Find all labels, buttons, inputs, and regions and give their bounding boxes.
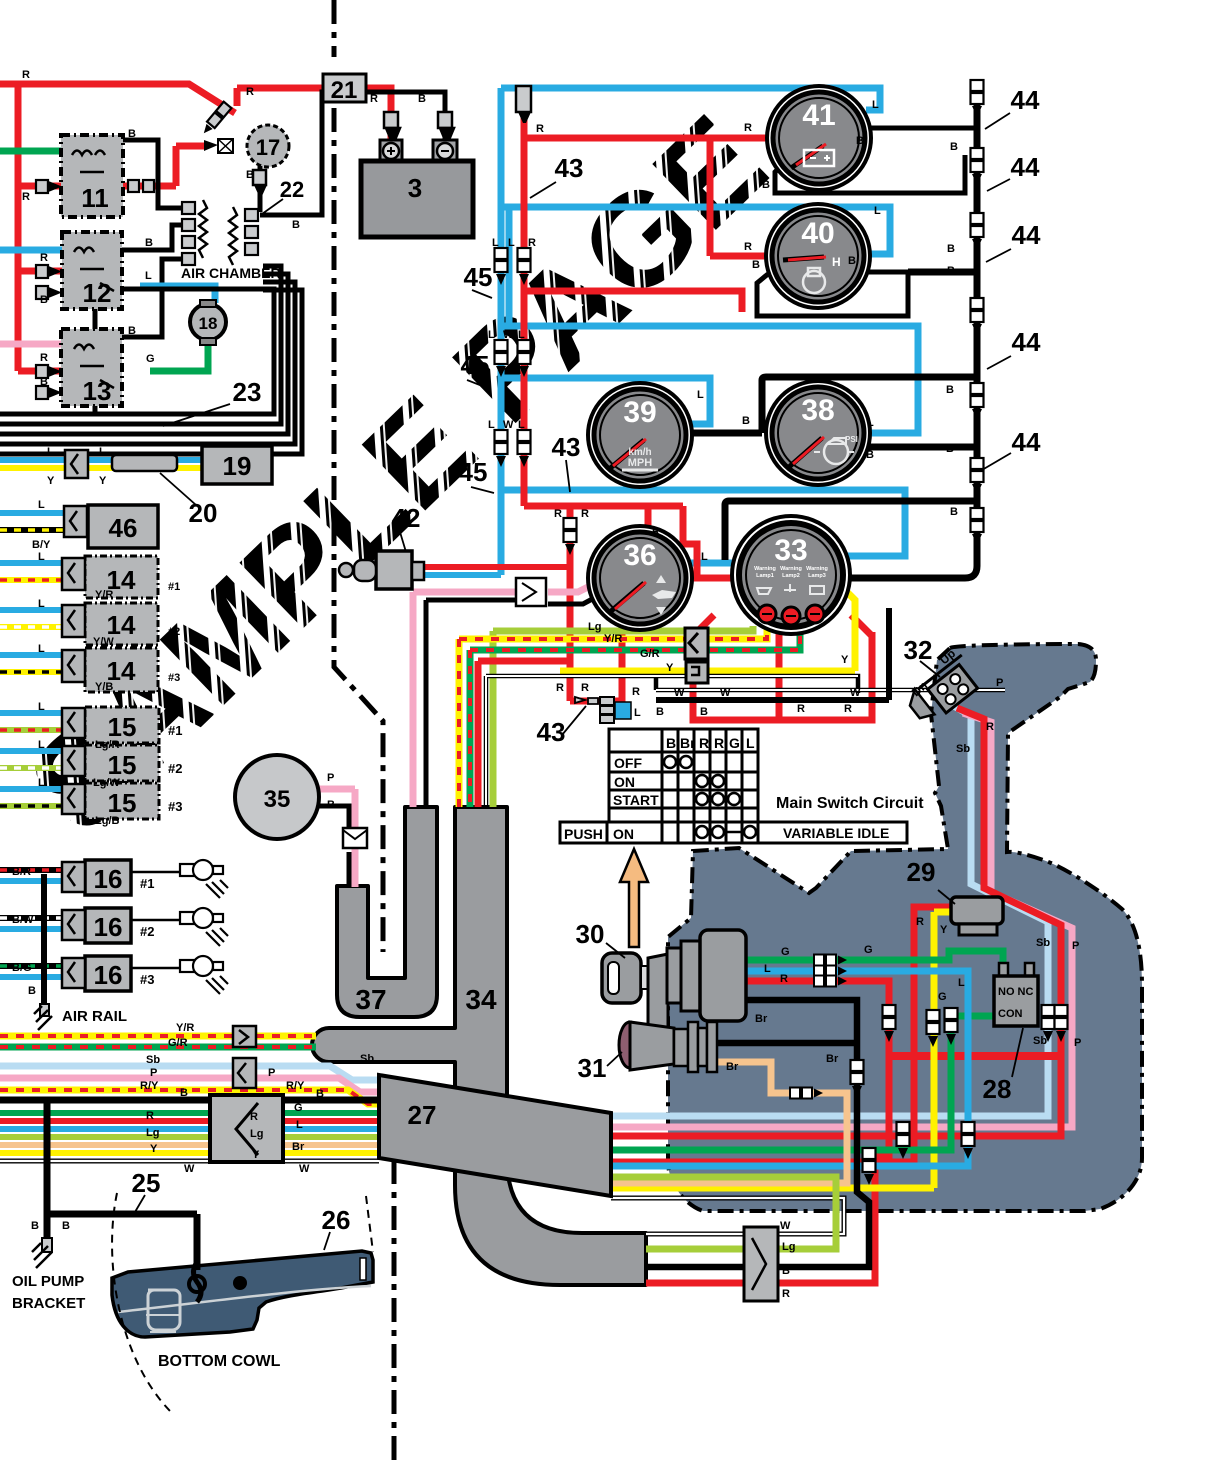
connector pairs in engine area [814,955,847,966]
svg-text:L: L [872,99,879,111]
wires B/R B/W B/G + L to 16 boxes [0,870,62,966]
envelope connectors [343,828,367,848]
svg-text:R: R [632,686,640,698]
chevron connector pair near 33 [685,628,708,659]
svg-text:#3: #3 [168,672,180,684]
svg-text:Warning: Warning [780,566,802,572]
svg-text:#1: #1 [140,876,154,891]
svg-text:L: L [701,551,708,563]
svg-text:R: R [246,86,254,98]
wire black gauge 40 [757,272,908,316]
svg-text:Y/W: Y/W [93,636,114,648]
svg-text:R/Y: R/Y [140,1080,159,1092]
wire L blue: switch down to band [611,971,968,1166]
svg-text:22: 22 [280,177,304,202]
svg-text:3: 3 [408,173,422,203]
wire L+Y to box19 [0,457,202,463]
svg-text:35: 35 [264,786,291,813]
svg-text:R: R [370,93,378,105]
wire black gauge 41 [775,128,977,193]
svg-text:Warning: Warning [754,566,776,572]
svg-text:42: 42 [392,503,421,533]
wires L + Y/R Y/W Y/B to 14 boxes [0,563,62,655]
svg-text:Y: Y [666,662,674,674]
svg-text:46: 46 [109,513,138,543]
svg-text:#1: #1 [168,581,180,593]
svg-text:L: L [145,270,152,282]
svg-text:Main Switch Circuit: Main Switch Circuit [776,795,924,812]
wire Sb band to 32 [611,702,1048,1116]
wire B short near W connector [656,608,889,700]
wire Y/R stripe [0,1033,316,1040]
svg-text:45: 45 [461,350,490,380]
svg-text:L: L [764,963,771,975]
wire blue coil12 to 18 [140,286,215,303]
svg-text:L: L [296,1119,303,1131]
component battery 3 [380,140,402,162]
wire black nested bus bottom-left [0,266,302,454]
connector 32 trim switch [904,653,984,727]
svg-text:R: R [844,703,852,715]
svg-text:PSI: PSI [845,435,858,444]
svg-text:BRACKET: BRACKET [12,1295,85,1312]
svg-text:B: B [752,259,760,271]
hole in cowl [233,1276,247,1290]
wire green to coil 11 [0,148,64,155]
wire light blue to coil 12 [0,247,64,254]
svg-text:R: R [22,191,30,203]
wire P pink [0,1078,379,1092]
svg-text:L: L [38,551,45,563]
svg-text:45: 45 [464,262,493,292]
svg-text:W: W [299,1163,310,1175]
svg-text:P: P [1072,940,1079,952]
svg-text:ON: ON [614,774,635,790]
svg-text:Br: Br [755,1013,768,1025]
bullet connectors above battery [384,112,454,140]
svg-text:G: G [294,1102,303,1114]
svg-text:38: 38 [801,394,834,427]
grommet 25 on cowl [194,1262,202,1302]
wire R red distribution [524,112,872,720]
svg-text:12: 12 [83,278,112,308]
wire R band2 + relay drop [611,907,951,1162]
svg-text:L: L [38,499,45,511]
svg-text:15: 15 [108,750,137,780]
svg-text:L: L [746,735,755,751]
svg-text:16: 16 [94,912,123,942]
svg-text:#3: #3 [168,799,182,814]
component 18 sensor [190,304,226,340]
svg-text:B: B [947,265,955,277]
wires G R L Lg Br Y W to connector/27 [0,1110,379,1116]
svg-text:P: P [327,772,334,784]
svg-text:Sb: Sb [360,1053,374,1065]
svg-text:B: B [327,799,335,811]
svg-text:Br: Br [726,1061,739,1073]
svg-text:R: R [782,1288,790,1300]
svg-text:B: B [856,135,864,147]
wire black ground loop rectangle [95,289,274,414]
wire R harness into tube 34 [478,661,570,807]
wire W white band loop [611,1198,844,1234]
svg-text:19: 19 [223,451,252,481]
svg-text:Lg/R: Lg/R [95,739,119,751]
leader curves bottom [112,1193,373,1412]
gauge 33 warning panel [732,516,850,634]
svg-text:B: B [950,506,958,518]
svg-text:B: B [666,735,676,751]
svg-text:43: 43 [552,432,581,462]
components 15 boxes x3 [85,707,159,819]
svg-text:#2: #2 [168,761,182,776]
svg-text:B: B [246,169,254,181]
svg-text:#1: #1 [168,723,182,738]
big harness connector on bus [210,1095,283,1162]
svg-text:Br: Br [826,1053,839,1065]
svg-text:16: 16 [94,960,123,990]
wire Y yellow harness [560,592,855,671]
svg-text:44: 44 [1011,152,1040,182]
svg-text:G/R: G/R [640,648,660,660]
svg-text:Y/R: Y/R [95,589,113,601]
svg-text:Lg/B: Lg/B [95,815,119,827]
svg-text:15: 15 [108,788,137,818]
svg-text:OFF: OFF [614,755,642,771]
gauge 39 speedometer [588,383,692,487]
svg-text:R: R [916,916,924,928]
svg-text:B: B [40,294,48,306]
svg-text:P: P [268,1067,275,1079]
svg-text:Lg/W: Lg/W [93,777,120,789]
svg-text:Lamp2: Lamp2 [782,573,800,579]
svg-text:B/R: B/R [12,866,31,878]
svg-text:Y: Y [99,475,107,487]
svg-text:L: L [38,739,45,751]
svg-text:31: 31 [578,1053,607,1083]
dash-dot control cables [334,0,394,1465]
wire Y yellow: idle circuit down to band [611,912,951,1188]
svg-text:34: 34 [465,984,497,1015]
wire black bus vertical 44 [850,85,977,578]
leader lines [135,113,1023,1250]
lamp 31 [619,1022,717,1072]
svg-text:B: B [31,1220,39,1232]
svg-text:L: L [508,237,515,249]
svg-text:R: R [581,682,589,694]
svg-text:B: B [946,443,954,455]
svg-text:L: L [488,329,495,341]
svg-text:B: B [947,243,955,255]
svg-text:25: 25 [132,1168,161,1198]
svg-text:R: R [744,241,752,253]
svg-text:R: R [714,735,724,751]
wire Y/R stripe harness to 33 [459,626,767,807]
orange arrow [620,849,648,947]
svg-text:15: 15 [108,712,137,742]
svg-text:L: L [874,205,881,217]
wire R/Y stripe [0,1090,379,1104]
svg-text:39: 39 [623,396,656,429]
svg-text:28: 28 [983,1074,1012,1104]
svg-text:44: 44 [1012,327,1041,357]
tube 34 (gray conduit) [312,807,646,1285]
svg-text:B: B [866,449,874,461]
wire thin leads to spark plugs [130,872,180,968]
svg-text:B/G: B/G [12,962,32,974]
svg-text:H: H [832,255,841,269]
svg-text:B/Y: B/Y [32,539,51,551]
svg-text:R: R [40,252,48,264]
svg-text:L: L [518,329,525,341]
svg-text:30: 30 [576,919,605,949]
svg-text:R: R [536,123,544,135]
svg-text:43: 43 [555,153,584,183]
svg-text:P: P [996,677,1003,689]
tube 37 (gray conduit U) [337,807,437,1017]
gauge 41 voltmeter [767,86,871,190]
svg-text:Y: Y [841,654,849,666]
svg-text:23: 23 [233,377,262,407]
svg-text:Lg: Lg [588,621,601,633]
svg-text:B: B [950,141,958,153]
gauge 40 temp [766,204,870,308]
components 16 boxes x3 [85,860,131,991]
wire pink + black pair into tube 37 right / to gauge 36 [413,585,592,807]
svg-text:Y/R: Y/R [604,633,622,645]
svg-text:R: R [581,508,589,520]
component 42 solenoid [376,551,412,589]
svg-text:B: B [946,384,954,396]
wire Sb pale blue [0,1066,379,1080]
wire G/R stripe harness to 33 [470,626,800,807]
svg-text:B: B [292,219,300,231]
44 connector column on black bus [971,80,984,117]
svg-text:P: P [1074,1037,1081,1049]
svg-text:36: 36 [623,539,656,572]
wire black coil outputs to air chamber bank [122,140,182,337]
air rail ground [40,1004,49,1016]
component 46 box [88,505,158,548]
svg-text:G: G [781,946,790,958]
svg-text:Lg: Lg [250,1128,263,1140]
svg-text:29: 29 [907,857,936,887]
svg-text:AIR RAIL: AIR RAIL [62,1008,127,1025]
svg-text:B: B [145,237,153,249]
svg-text:W: W [503,329,514,341]
svg-text:Sb: Sb [146,1054,160,1066]
svg-text:Lg: Lg [782,1241,795,1253]
svg-text:L: L [38,777,45,789]
43 pigtail connectors [516,86,531,112]
svg-text:44: 44 [1012,220,1041,250]
wire B drop to oil pump bracket [47,1100,197,1270]
svg-text:B: B [782,1265,790,1277]
svg-text:13: 13 [83,376,112,406]
svg-text:33: 33 [774,534,807,567]
small wire letter labels [12,69,1081,1300]
wire green coil13 to 18 [150,341,208,371]
svg-text:L: L [38,643,45,655]
wire R main feed: switch to bottom group [646,981,889,1283]
svg-text:R: R [146,1110,154,1122]
svg-text:B: B [40,376,48,388]
svg-text:R: R [556,682,564,694]
svg-text:G: G [864,944,873,956]
svg-text:Lamp3: Lamp3 [808,573,826,579]
component 21 fuse box [323,74,366,102]
svg-text:R: R [652,526,660,538]
svg-text:G: G [938,991,947,1003]
svg-text:B: B [62,1220,70,1232]
svg-text:#2: #2 [140,924,154,939]
wire Br tan: lamp to band [613,1062,847,1183]
wire red + cyan from 42 [424,564,568,570]
ignition switch 30 [602,930,746,1044]
svg-text:L: L [518,419,525,431]
svg-text:L: L [492,237,499,249]
svg-text:Sb: Sb [1036,937,1050,949]
svg-text:R: R [797,703,805,715]
svg-text:W: W [850,687,861,699]
wire L cyan distribution [501,88,918,575]
svg-text:16: 16 [94,864,123,894]
svg-text:R: R [22,69,30,81]
wire black battery negative [260,92,445,215]
connector on red 36 area [564,518,577,555]
svg-text:PUSH: PUSH [564,826,603,842]
svg-text:Sb: Sb [1033,1035,1047,1047]
svg-text:L: L [697,389,704,401]
wire black gauge 33 [725,501,977,560]
bullet connectors on left coil feeds [36,180,59,399]
wire B thick [0,1097,379,1104]
wire Lg band loop [611,1177,836,1249]
svg-text:Y: Y [150,1143,158,1155]
wire W white pair [486,676,1005,807]
svg-text:OIL PUMP: OIL PUMP [12,1273,84,1290]
wire L and B/Y to box46 [0,510,64,516]
svg-text:B: B [656,706,664,718]
svg-text:W: W [503,419,514,431]
svg-text:G/R: G/R [168,1037,188,1049]
svg-text:B: B [418,93,426,105]
svg-text:Y: Y [940,924,948,936]
svg-text:Y: Y [47,475,55,487]
svg-text:11: 11 [81,183,109,213]
svg-text:CON: CON [998,1008,1023,1020]
air chamber connector bank [182,202,258,265]
svg-text:VARIABLE IDLE: VARIABLE IDLE [783,825,889,841]
component 35 sensor circle [235,755,319,839]
svg-text:R: R [986,721,994,733]
svg-text:L: L [47,446,54,458]
svg-text:AIR CHAMBER: AIR CHAMBER [181,265,281,281]
svg-text:Warning: Warning [806,566,828,572]
oil pump ground [42,1238,52,1252]
svg-text:Y/R: Y/R [176,1022,194,1034]
svg-text:L: L [958,977,965,989]
svg-text:P: P [150,1067,157,1079]
gauges [588,86,871,634]
svg-text:18: 18 [199,314,218,333]
svg-text:B/W: B/W [12,914,34,926]
svg-text:W: W [720,687,731,699]
svg-text:Br: Br [680,735,696,751]
svg-text:L: L [488,419,495,431]
wire black air-rail ground [41,874,47,1005]
switch 28 NO NC COM [999,963,1008,977]
component 17 valve [247,125,289,167]
svg-text:W: W [184,1163,195,1175]
main switch circuit table [560,729,907,843]
svg-text:R: R [744,122,752,134]
wires L + Lg/R Lg/W Lg/B to 15 boxes [0,713,62,789]
wire G green: switch + com box [611,951,1003,1150]
svg-text:L: L [99,446,106,458]
wire Lg harness to 33 [493,626,753,807]
svg-text:R: R [554,508,562,520]
wire P band to 32 [611,713,1072,1127]
wire pink + black from 35 into tube 37 left [318,789,355,887]
svg-text:L: L [38,701,45,713]
svg-text:R: R [528,237,536,249]
svg-text:B: B [762,179,770,191]
svg-text:ON: ON [613,826,634,842]
svg-text:G: G [729,735,740,751]
svg-text:21: 21 [331,77,358,104]
svg-text:MPH: MPH [628,457,653,469]
svg-text:R: R [250,1111,258,1123]
svg-text:Br: Br [292,1141,305,1153]
svg-text:BOTTOM COWL: BOTTOM COWL [158,1353,281,1370]
svg-text:START: START [613,792,659,808]
components 14 boxes x3 [85,556,158,692]
wire G/R stripe [0,1044,316,1051]
svg-text:43: 43 [537,717,566,747]
wire black gauges 39-38 [684,377,977,452]
labels: big component numbers [81,77,1041,1235]
svg-text:B: B [742,415,750,427]
svg-text:NO NC: NO NC [998,986,1034,998]
svg-text:B: B [128,325,136,337]
chevron connector bottom trailer [744,1227,778,1301]
svg-text:41: 41 [802,99,835,132]
svg-text:32: 32 [904,635,933,665]
svg-text:Lg: Lg [146,1127,159,1139]
svg-text:B: B [848,255,856,267]
svg-text:#3: #3 [140,972,154,987]
svg-text:R: R [780,973,788,985]
gauge 36 trim [588,526,692,630]
component 27 harness trapezoid [379,1075,611,1196]
gauge 38 oil pressure [766,381,870,485]
svg-text:Y: Y [252,1149,260,1161]
svg-text:B: B [28,985,36,997]
svg-text:B: B [180,1087,188,1099]
svg-text:44: 44 [1012,427,1041,457]
svg-text:44: 44 [1011,85,1040,115]
svg-text:W: W [674,687,685,699]
svg-text:26: 26 [322,1205,351,1235]
svg-text:Sb: Sb [956,743,970,755]
svg-text:L: L [867,417,874,429]
svg-text:Y/B: Y/B [95,681,113,693]
svg-text:R/Y: R/Y [286,1080,305,1092]
svg-text:R: R [40,352,48,364]
wire R band to 32 [611,708,1061,1136]
svg-text:B: B [128,128,136,140]
